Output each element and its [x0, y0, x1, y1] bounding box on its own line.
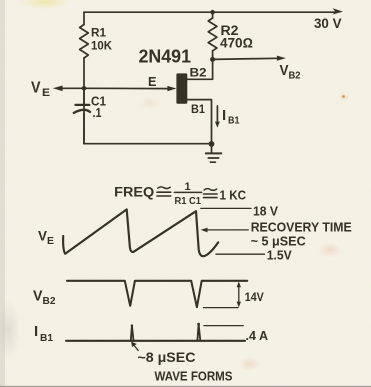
node dot: ground junction: [209, 141, 215, 147]
svg-text:B2: B2: [190, 68, 207, 80]
svg-text:FREQ: FREQ: [114, 184, 154, 199]
svg-text:I: I: [222, 107, 226, 124]
svg-text:~8 μSEC: ~8 μSEC: [138, 350, 196, 365]
svg-text:30 V: 30 V: [314, 16, 342, 31]
resistor R1: [80, 25, 89, 59]
measure arrow 14V: [238, 286, 240, 304]
svg-text:1: 1: [185, 181, 191, 193]
arrowhead: IB1 spike pointer: [131, 341, 137, 347]
svg-text:1 KC: 1 KC: [220, 187, 247, 202]
svg-text:18 V: 18 V: [253, 203, 278, 218]
svg-text:2N491: 2N491: [139, 46, 192, 66]
capacitor C1 top plate: [76, 104, 90, 106]
current arrow IB1: [216, 106, 218, 123]
transistor 2N491 body bar: [176, 73, 187, 103]
VB2 waveform: [67, 281, 247, 307]
wire: R1 bottom to bottom rail: [83, 58, 85, 144]
level line 1.5V: [216, 253, 265, 255]
arrowhead: emitter: [167, 86, 176, 91]
IB1 spike 2: [197, 324, 200, 341]
svg-text:I: I: [34, 323, 38, 340]
svg-text:E: E: [148, 75, 157, 89]
svg-text:B2: B2: [289, 69, 301, 81]
wire: VB2 output: [213, 58, 278, 59]
svg-text:WAVE FORMS: WAVE FORMS: [155, 369, 233, 384]
capacitor C1 bottom plate: [74, 110, 90, 113]
svg-text:RECOVERY TIME: RECOVERY TIME: [251, 220, 352, 235]
svg-text:1.5V: 1.5V: [267, 247, 292, 262]
wire: left vertical (top rail to R1): [83, 12, 85, 24]
wire: top supply rail: [84, 11, 335, 13]
capacitor C1 connections: [83, 88, 85, 104]
IB1 spike tips: [131, 324, 133, 326]
svg-text:.1: .1: [93, 106, 102, 120]
arrowhead: 30V supply: [333, 8, 343, 14]
wire: B2 lead: [187, 61, 212, 79]
svg-text:V: V: [33, 288, 43, 305]
svg-text:B1: B1: [40, 332, 53, 344]
svg-text:B2: B2: [43, 295, 56, 307]
node dot: top rail / R2: [210, 10, 215, 15]
approx-equal sign 2: [204, 189, 216, 191]
wire: R2 bottom to node: [212, 51, 214, 60]
arrowhead: IB1: [215, 122, 220, 128]
IB1 spike 1: [131, 325, 134, 340]
svg-text:E: E: [47, 235, 54, 247]
IB1 baseline: [66, 340, 245, 342]
svg-text:470Ω: 470Ω: [220, 35, 253, 50]
approx-equal sign 1: [158, 187, 170, 189]
svg-text:R1 C1: R1 C1: [175, 195, 202, 207]
svg-text:14V: 14V: [245, 292, 264, 304]
svg-text:10K: 10K: [91, 39, 112, 53]
resistor R2 top wire: [212, 12, 214, 18]
wire: B1 lead down to bottom rail: [187, 100, 211, 144]
ground bars: [206, 152, 222, 154]
level line .4A: [204, 325, 243, 327]
wire: bottom rail: [84, 143, 212, 145]
svg-text:R1: R1: [91, 26, 106, 40]
svg-text:.4 A: .4 A: [246, 328, 269, 343]
node dot: VE junction: [82, 86, 87, 91]
recovery time pointer line: [207, 229, 249, 231]
resistor R2: [208, 18, 217, 51]
fraction bar: [174, 191, 201, 193]
VE sawtooth waveform: [63, 209, 218, 256]
wire: emitter wire to transistor: [84, 87, 168, 89]
ground stub: [211, 144, 213, 153]
level line under VB2 spikes (14V bottom): [204, 307, 239, 309]
svg-text:B1: B1: [191, 104, 206, 116]
node dot: R2 / B2: [210, 57, 215, 62]
arrowhead: 14V bottom: [237, 302, 241, 308]
arrowhead: VE: [53, 86, 63, 92]
arrowhead: VB2: [277, 56, 286, 61]
bottom edge line: [0, 386, 371, 387]
pointer arrow to IB1 spike: [133, 344, 139, 351]
svg-text:E: E: [42, 87, 50, 99]
wire: VE stub left: [62, 87, 84, 89]
arrowhead: recovery time: [201, 228, 208, 233]
svg-text:V: V: [280, 63, 289, 79]
svg-text:V: V: [31, 80, 41, 97]
level line 18V: [201, 207, 251, 209]
arrowhead: 14V top: [237, 282, 241, 288]
svg-text:B1: B1: [228, 114, 240, 126]
